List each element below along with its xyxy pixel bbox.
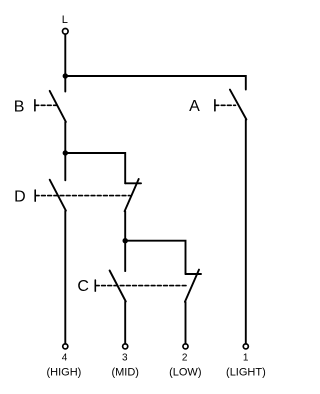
svg-text:(LOW): (LOW) — [169, 367, 201, 379]
switch C left blade — [110, 271, 126, 302]
switch D left blade — [50, 180, 66, 211]
wire J1 to switch B — [64, 76, 66, 92]
switch B linkage — [35, 104, 57, 106]
switch D right blade — [125, 179, 139, 211]
terminal 1 — [243, 344, 248, 349]
switch D right contact jog — [125, 182, 141, 184]
switch C right contact jog — [186, 273, 202, 275]
wire J3 to switch C right pole — [125, 241, 185, 274]
switch A actuator bar — [214, 100, 216, 111]
wire switch D right to junction J3 — [124, 211, 126, 241]
switch D linkage — [35, 195, 130, 197]
switch B actuator bar — [34, 100, 36, 111]
terminal 3 — [123, 344, 128, 349]
svg-text:B: B — [14, 98, 25, 115]
junction J2 — [63, 150, 68, 155]
wire switch A to terminal 1 — [245, 120, 247, 344]
junction J3 — [123, 238, 128, 243]
svg-text:(MID): (MID) — [111, 367, 139, 379]
wire J2 to switch D left pole — [64, 153, 66, 180]
svg-text:3: 3 — [122, 353, 128, 364]
wire switch C right to terminal 2 — [185, 302, 187, 343]
switch A linkage — [215, 104, 236, 106]
svg-text:1: 1 — [243, 353, 249, 364]
wire J2 to switch D right pole — [65, 153, 125, 183]
switch D actuator bar — [34, 190, 36, 201]
svg-text:C: C — [77, 278, 89, 295]
wire L to junction J1 — [64, 35, 66, 76]
junction J1 — [63, 73, 68, 78]
switch B blade — [50, 91, 66, 122]
switch C right blade — [185, 270, 199, 302]
svg-text:4: 4 — [62, 353, 68, 364]
terminal L — [63, 29, 69, 35]
wire switch B to junction J2 — [64, 122, 66, 153]
svg-text:L: L — [62, 14, 68, 26]
wire J3 to switch C left pole — [124, 241, 126, 271]
svg-text:A: A — [189, 98, 200, 115]
switch C linkage — [95, 285, 188, 287]
svg-text:D: D — [14, 189, 26, 206]
terminal 4 — [63, 344, 68, 349]
wire switch C left to terminal 3 — [124, 302, 126, 344]
switch C actuator bar — [94, 280, 96, 291]
svg-text:(HIGH): (HIGH) — [46, 367, 81, 379]
svg-text:2: 2 — [182, 353, 188, 364]
switch A blade — [230, 90, 247, 120]
wire switch D left to terminal 4 — [64, 211, 66, 344]
svg-text:(LIGHT): (LIGHT) — [226, 367, 266, 379]
terminal 2 — [183, 344, 188, 349]
wire J1 to switch A — [65, 76, 246, 90]
